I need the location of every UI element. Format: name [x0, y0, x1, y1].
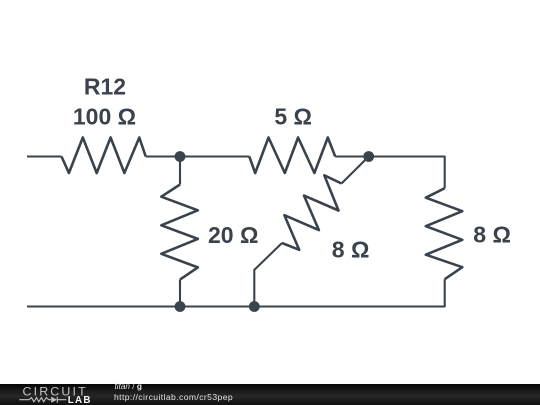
svg-text:100 Ω: 100 Ω: [73, 104, 136, 130]
footer URL: [114, 393, 233, 402]
wire: right 8 Ω down and bottom rail to open left terminal: [27, 279, 445, 306]
CircuitLab logo: [0, 384, 110, 405]
wire: node A to 5 Ω resistor: [180, 155, 249, 157]
node B (top junction of 5 Ω / diagonal 8 Ω / right 8 Ω): [363, 151, 374, 162]
resistor 20 Ω (vertical, middle left): [161, 185, 198, 280]
svg-text:R12: R12: [84, 74, 126, 100]
node C (bottom junction under 20 Ω): [175, 301, 186, 312]
svg-text:LAB: LAB: [68, 395, 92, 405]
wire: node D up and diagonal lead to diagonal 8 Ω: [254, 243, 282, 307]
wire: node A down to 20 Ω resistor: [179, 157, 181, 185]
resistor 5 Ω (horizontal, top middle): [249, 138, 335, 174]
node D (bottom junction under diagonal 8 Ω): [249, 301, 260, 312]
resistor 8 Ω (vertical, right): [426, 188, 463, 279]
CircuitLab footer bar: [0, 384, 540, 405]
wire: node B to top-right corner down to right 8 Ω: [369, 157, 445, 189]
wire: 5 Ω resistor to node B: [335, 155, 369, 157]
footer text: titan / g: [115, 383, 142, 391]
node A (top junction of R12 / 5 Ω / 20 Ω): [175, 151, 186, 162]
svg-text:8 Ω: 8 Ω: [332, 237, 370, 263]
wire: R12 to node A: [146, 155, 180, 157]
resistor R12 100 Ω (horizontal, top left): [62, 138, 146, 174]
wire: 20 Ω resistor to node C on bottom rail: [179, 280, 181, 307]
svg-text:20 Ω: 20 Ω: [208, 222, 258, 248]
resistor 8 Ω (diagonal, middle): [282, 175, 342, 250]
wire: open left terminal to R12: [27, 155, 62, 157]
svg-text:5 Ω: 5 Ω: [274, 103, 312, 129]
svg-text:8 Ω: 8 Ω: [473, 222, 511, 248]
wire: diagonal 8 Ω to node B: [342, 157, 369, 184]
